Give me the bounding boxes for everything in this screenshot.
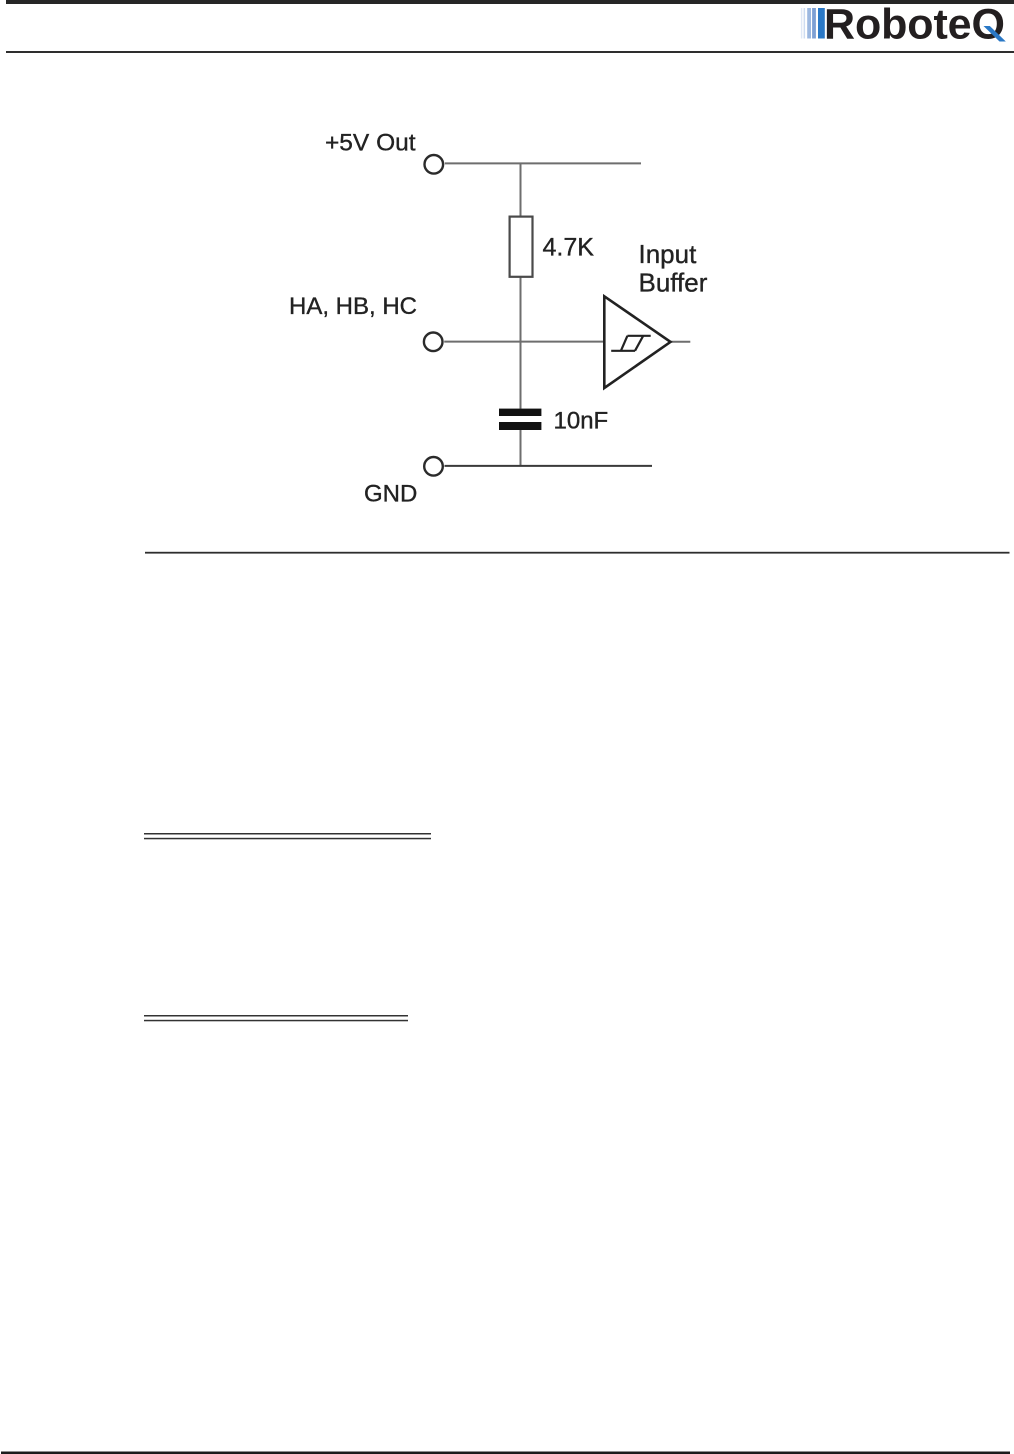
svg-text:RoboteO: RoboteO [824,1,1005,49]
svg-text:Buffer: Buffer [639,268,708,298]
svg-text:10nF: 10nF [554,408,609,435]
svg-text:Input: Input [639,239,698,269]
svg-text:HA, HB, HC: HA, HB, HC [289,293,417,320]
svg-text:GND: GND [364,481,417,508]
svg-text:4.7K: 4.7K [543,233,595,261]
svg-text:+5V Out: +5V Out [325,129,416,156]
